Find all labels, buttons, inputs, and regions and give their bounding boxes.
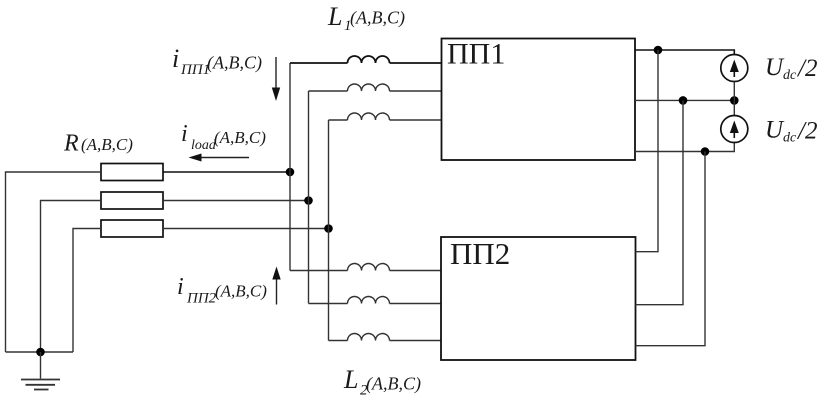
inductor L1 phase A	[348, 56, 390, 63]
wire L1 phase C left	[329, 119, 348, 121]
wire L2 phase A right	[390, 270, 442, 272]
resistor R phase B	[101, 192, 163, 209]
wire L1 phase B right	[390, 90, 442, 92]
converter U2 box ПП2	[441, 237, 636, 360]
wire bus A vertical (ПП2 out1)	[636, 50, 659, 252]
wire L2 phase C left	[329, 340, 348, 342]
arrow i_load left	[189, 154, 250, 162]
wire L1 phase A left	[290, 62, 348, 64]
wire bus C vertical (ПП2 out3)	[636, 152, 706, 346]
wire L1 phase B left	[309, 90, 348, 92]
resistor R phase A	[101, 164, 163, 181]
svg-text:ПП1: ПП1	[180, 62, 210, 78]
wire R phase A left	[6, 172, 102, 352]
wire bottom common	[6, 351, 74, 353]
label R(A,B,C)	[63, 131, 133, 157]
svg-text:U: U	[765, 54, 785, 81]
svg-text:(A,B,C): (A,B,C)	[215, 282, 267, 301]
wire ПП1 out 3 (bottom, to source 2)	[635, 143, 734, 152]
wire R phase C left	[73, 229, 101, 353]
current source U_dc/2 top	[721, 55, 748, 82]
svg-text:/2: /2	[796, 55, 817, 82]
svg-text:i: i	[177, 274, 184, 300]
svg-text:i: i	[181, 121, 188, 147]
wire R phase B left	[41, 201, 102, 353]
svg-text:i: i	[172, 44, 179, 73]
wire R phase C right	[163, 228, 329, 230]
svg-text:load: load	[191, 138, 217, 153]
node out1 / bus A	[654, 46, 663, 55]
svg-text:ПП2: ПП2	[450, 236, 510, 271]
node out2 / bus B	[679, 96, 688, 105]
wire phase A vertical	[289, 63, 291, 271]
label i_load(A,B,C)	[181, 121, 266, 153]
wire ПП1 out 2 (mid)	[635, 99, 734, 101]
node midpoint of sources	[730, 96, 739, 105]
resistor R phase C	[101, 220, 163, 237]
inductor L2 phase B	[348, 297, 390, 304]
wire L2 phase B left	[309, 303, 348, 305]
converter U1 box ПП1	[442, 39, 636, 161]
wire L2 phase B right	[390, 303, 442, 305]
label i_ПП2(A,B,C)	[177, 274, 267, 307]
ground	[21, 352, 60, 390]
arrow i_ПП1 down	[272, 57, 280, 101]
label i_ПП1(A,B,C)	[172, 44, 262, 78]
inductor L1 phase C	[348, 113, 390, 120]
wire ПП1 out 1 (top, to source 1)	[635, 50, 734, 55]
svg-text:dc: dc	[783, 131, 797, 146]
inductor L2 phase A	[348, 264, 390, 271]
wire R phase B right	[163, 200, 309, 202]
node ground junction	[36, 348, 45, 357]
wire L1 phase C right	[390, 119, 442, 121]
wire L2 phase A left	[290, 270, 348, 272]
svg-text:L: L	[343, 365, 358, 394]
wire bus B vertical (ПП2 out2)	[636, 100, 684, 304]
svg-text:(A,B,C): (A,B,C)	[214, 128, 266, 147]
node phase C tap	[324, 224, 333, 233]
svg-text:(A,B,C): (A,B,C)	[350, 8, 405, 29]
inductor L2 phase C	[348, 334, 390, 341]
wire between sources	[733, 82, 735, 116]
label U_dc/2 top	[765, 54, 817, 83]
svg-text:R: R	[63, 131, 79, 157]
svg-text:(A,B,C): (A,B,C)	[81, 135, 133, 154]
svg-text:L: L	[327, 2, 342, 31]
wire L1 phase A right	[390, 62, 442, 64]
svg-text:/2: /2	[796, 118, 817, 145]
wire L2 phase C right	[390, 340, 442, 342]
node out3 / bus C	[701, 147, 710, 156]
svg-text:ПП1: ПП1	[447, 38, 505, 71]
svg-text:ПП2: ПП2	[186, 291, 217, 307]
wire phase C vertical	[328, 120, 330, 341]
svg-text:dc: dc	[783, 68, 797, 83]
wire phase B vertical	[308, 91, 310, 304]
label L1(A,B,C)	[327, 2, 405, 34]
current source U_dc/2 bottom	[721, 116, 748, 143]
node phase A tap	[286, 168, 295, 177]
inductor L1 phase B	[348, 84, 390, 91]
label U_dc/2 bottom	[765, 117, 817, 146]
arrow i_ПП2 up	[272, 267, 280, 305]
wire R phase A right (i_load)	[163, 171, 290, 173]
label L2(A,B,C)	[343, 365, 421, 399]
svg-text:(A,B,C): (A,B,C)	[207, 53, 262, 74]
svg-text:U: U	[765, 117, 785, 144]
node phase B tap	[304, 196, 313, 205]
svg-text:(A,B,C): (A,B,C)	[366, 374, 421, 395]
